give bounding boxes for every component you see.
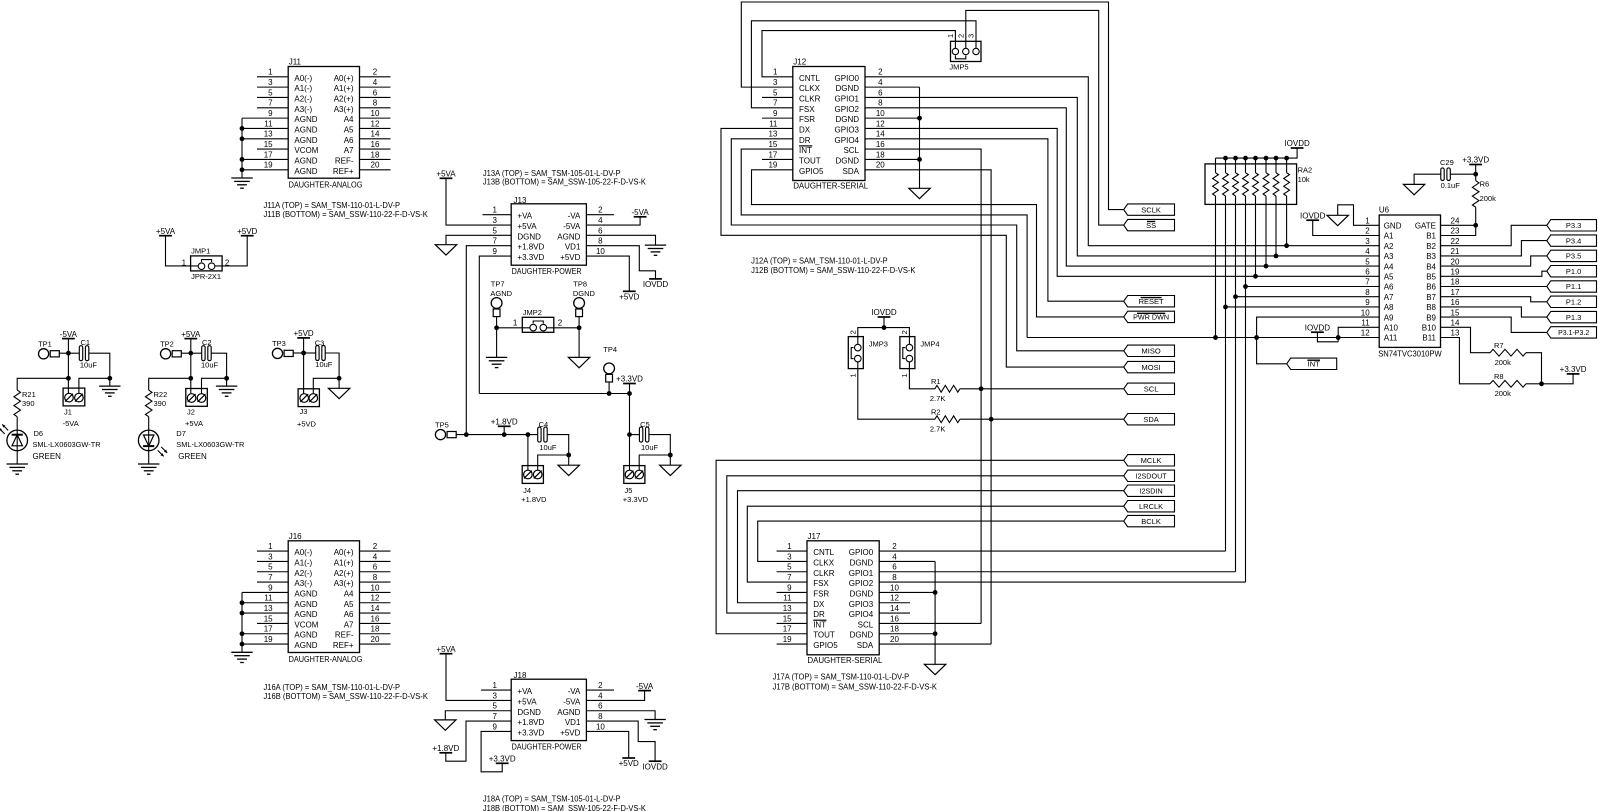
- wire U6 GATE to R6 node: [1441, 223, 1479, 228]
- wire U6 B1 to GATE node: [1441, 225, 1476, 235]
- wire net AGND bus left of J11: [240, 118, 245, 178]
- svg-text:J17B (BOTTOM) = SAM_SSW-110-22: J17B (BOTTOM) = SAM_SSW-110-22-F-D-VS-K: [773, 682, 938, 691]
- svg-text:2: 2: [878, 68, 883, 77]
- flag I2SDOUT: [1124, 470, 1175, 481]
- svg-text:GREEN: GREEN: [178, 452, 207, 461]
- svg-text:+5VD: +5VD: [560, 253, 580, 262]
- terminal J5 +3.3VD: [623, 466, 649, 504]
- svg-text:9: 9: [268, 109, 273, 118]
- svg-text:DR: DR: [813, 610, 825, 619]
- svg-text:J16B (BOTTOM) = SAM_SSW-110-22: J16B (BOTTOM) = SAM_SSW-110-22-F-D-VS-K: [264, 692, 429, 701]
- wire +5VA node to C2: [191, 352, 202, 354]
- svg-text:3: 3: [268, 552, 273, 561]
- svg-text:IOVDD: IOVDD: [643, 280, 669, 289]
- svg-text:CNTL: CNTL: [813, 548, 834, 557]
- wire net A11/INT line: [1027, 337, 1379, 339]
- wire J18 pin9 to +3.3VD: [481, 731, 511, 771]
- wire C5 node to plate: [630, 434, 640, 436]
- svg-text:15: 15: [264, 140, 273, 149]
- wire +5VD drop to node: [303, 338, 305, 353]
- svg-text:A1(+): A1(+): [334, 84, 354, 93]
- wire J13 pin4 to -5VA: [586, 217, 640, 225]
- svg-text:J5: J5: [625, 486, 633, 495]
- power +5VD below J13: [619, 291, 639, 301]
- wire ground node down: [669, 455, 671, 465]
- svg-text:R1: R1: [931, 377, 941, 386]
- wire J17 pin9 FSR stub: [777, 591, 807, 593]
- wire J13 pin5 DGND to ground: [446, 235, 511, 244]
- jumper JMP3: [848, 330, 888, 377]
- svg-text:15: 15: [783, 614, 792, 623]
- svg-text:TP1: TP1: [38, 340, 52, 349]
- svg-text:TP4: TP4: [603, 345, 617, 354]
- svg-text:5: 5: [1365, 257, 1370, 266]
- flag P3.4: [1547, 235, 1597, 246]
- flag SDA: [1124, 414, 1175, 425]
- svg-text:17: 17: [264, 150, 273, 159]
- svg-text:5: 5: [787, 563, 792, 572]
- terminal J1 -5VA: [63, 388, 85, 428]
- svg-text:10: 10: [596, 247, 605, 256]
- connector J11 DAUGHTER-ANALOG: [242, 58, 391, 190]
- svg-text:1: 1: [787, 542, 792, 551]
- terminal J3 +5VD: [297, 389, 319, 429]
- flag MCLK: [1124, 455, 1175, 466]
- wire D6 to ground: [16, 450, 18, 464]
- wire C29 right to node: [1450, 173, 1475, 175]
- wire J12 pin9 FSR stub: [762, 117, 793, 119]
- svg-text:A11: A11: [1384, 334, 1398, 343]
- svg-text:SDA: SDA: [857, 641, 874, 650]
- svg-text:+3.3VD: +3.3VD: [616, 375, 643, 384]
- svg-text:P1.0: P1.0: [1566, 267, 1581, 276]
- svg-text:I2SDIN: I2SDIN: [1140, 486, 1163, 495]
- power -5VA above TP1: [60, 330, 78, 339]
- svg-text:+3.3VD: +3.3VD: [517, 253, 544, 262]
- svg-text:6: 6: [373, 88, 378, 97]
- jumper JMP5 3-pin: [946, 34, 981, 72]
- power +5VA at JMP1: [156, 227, 176, 236]
- svg-text:1: 1: [492, 206, 497, 215]
- wire +3.3VD drop to C29 node: [1473, 165, 1478, 177]
- wire net GPIO1 J12 to U6 A3: [865, 97, 1379, 258]
- svg-text:GREEN: GREEN: [33, 452, 62, 461]
- svg-text:VCOM: VCOM: [294, 146, 318, 155]
- power +5VA left of J18: [436, 645, 456, 654]
- svg-text:24: 24: [1451, 217, 1460, 226]
- connector J18 DAUGHTER-POWER: [492, 671, 605, 751]
- svg-text:8: 8: [598, 237, 603, 246]
- svg-text:+5VA: +5VA: [156, 227, 176, 236]
- svg-text:4: 4: [878, 78, 883, 87]
- flag SCLK: [1124, 204, 1175, 215]
- svg-text:SN74TVC3010PW: SN74TVC3010PW: [1378, 349, 1442, 358]
- svg-text:RA2: RA2: [1298, 165, 1313, 174]
- svg-text:16: 16: [371, 140, 380, 149]
- wire +3.3VD drop and down to C5 node: [627, 384, 632, 438]
- wire net SCL vertical J12 to J17: [865, 149, 983, 623]
- svg-text:+5VD: +5VD: [619, 293, 639, 302]
- svg-text:+3.3VD: +3.3VD: [1560, 365, 1587, 374]
- wire INT flag drop: [1257, 338, 1287, 364]
- flag SCL: [1124, 383, 1175, 394]
- svg-text:A1: A1: [1384, 232, 1394, 241]
- svg-text:A10: A10: [1384, 324, 1399, 333]
- svg-text:18: 18: [890, 625, 899, 634]
- svg-text:1: 1: [848, 373, 857, 377]
- svg-text:5: 5: [492, 226, 497, 235]
- svg-text:18: 18: [371, 625, 380, 634]
- svg-text:12: 12: [371, 119, 380, 128]
- note J12A/J12B part numbers: [751, 256, 916, 275]
- svg-text:11: 11: [1361, 319, 1370, 328]
- wire net GPIO4 J12 to RESET flag: [865, 139, 1124, 301]
- svg-text:A0(-): A0(-): [294, 74, 312, 83]
- svg-text:DGND: DGND: [850, 589, 874, 598]
- svg-text:J16: J16: [289, 532, 302, 541]
- wire J13 pin6 AGND to ground: [586, 235, 655, 245]
- power +3.3VD at R7/R8: [1560, 365, 1587, 374]
- svg-text:9: 9: [773, 109, 778, 118]
- capacitor C5: [639, 420, 658, 452]
- svg-text:LRCLK: LRCLK: [1139, 502, 1163, 511]
- svg-text:P3.5: P3.5: [1566, 252, 1581, 261]
- svg-text:DGND: DGND: [517, 708, 541, 717]
- svg-text:P3.1-P3.2: P3.1-P3.2: [1558, 330, 1589, 337]
- wire J13 pin2 -VA stub: [586, 214, 614, 216]
- svg-text:9: 9: [492, 722, 497, 731]
- wire J12 pin17 TOUT stub: [762, 158, 793, 160]
- wire JMP4 pin1 to R1: [909, 369, 935, 389]
- svg-text:+3.3VD: +3.3VD: [623, 495, 649, 504]
- svg-text:FSR: FSR: [813, 589, 829, 598]
- wire TP8 down to node: [578, 317, 580, 328]
- svg-text:MCLK: MCLK: [1141, 456, 1162, 465]
- svg-text:B6: B6: [1426, 283, 1436, 292]
- svg-text:13: 13: [1451, 329, 1460, 338]
- wire C4 to ground corner: [547, 435, 571, 458]
- svg-text:1: 1: [946, 34, 955, 38]
- svg-text:GPIO5: GPIO5: [813, 641, 838, 650]
- svg-text:+1.8VD: +1.8VD: [517, 718, 544, 727]
- svg-text:J13: J13: [514, 196, 527, 205]
- svg-text:11: 11: [783, 594, 792, 603]
- wire TP1 to -5VA node: [59, 351, 71, 356]
- svg-text:REF+: REF+: [333, 641, 354, 650]
- svg-text:GPIO4: GPIO4: [849, 610, 874, 619]
- svg-text:-5VA: -5VA: [636, 682, 654, 691]
- power IOVDD above RA2: [1284, 139, 1310, 148]
- svg-text:B11: B11: [1422, 334, 1436, 343]
- svg-text:10: 10: [890, 583, 899, 592]
- wire net DGND J12: [865, 87, 922, 188]
- connector J12 DAUGHTER-SERIAL: [768, 58, 885, 191]
- svg-text:A7: A7: [344, 146, 354, 155]
- svg-text:DAUGHTER-ANALOG: DAUGHTER-ANALOG: [289, 655, 363, 664]
- svg-text:AGND: AGND: [294, 167, 317, 176]
- wire -5VA drop to node: [67, 339, 69, 354]
- wire net AGND bus left of J16: [240, 592, 245, 652]
- wire C2 to ground corner: [211, 353, 226, 378]
- svg-text:+1.8VD: +1.8VD: [491, 418, 518, 427]
- svg-text:A2(+): A2(+): [334, 569, 354, 578]
- svg-text:7: 7: [268, 573, 273, 582]
- svg-text:20: 20: [371, 161, 380, 170]
- resistor R6 200k: [1472, 174, 1496, 225]
- ground AGND earth right of J18: [644, 720, 665, 730]
- svg-text:+5VD: +5VD: [619, 759, 639, 768]
- svg-text:13: 13: [264, 604, 273, 613]
- wire RA2 lead3 to J17 GPIO1 / U6 A7: [1233, 204, 1238, 571]
- note J13A/J13B part numbers: [483, 169, 647, 186]
- wire +5VA node down and left: [149, 353, 194, 393]
- svg-text:7: 7: [1365, 278, 1370, 287]
- ground triangle DGND below J17: [924, 664, 945, 674]
- wire C1 to ground corner: [89, 353, 110, 378]
- svg-text:+5VA: +5VA: [517, 697, 537, 706]
- wire U6 A6 row: [1246, 286, 1380, 288]
- svg-text:12: 12: [371, 594, 380, 603]
- svg-text:R8: R8: [1494, 372, 1504, 381]
- svg-text:CLKX: CLKX: [799, 84, 821, 93]
- svg-text:MOSI: MOSI: [1142, 363, 1161, 372]
- flag MISO: [1124, 345, 1175, 356]
- svg-text:21: 21: [1451, 247, 1460, 256]
- svg-text:A2(-): A2(-): [294, 569, 312, 578]
- svg-text:B1: B1: [1426, 232, 1436, 241]
- svg-text:-VA: -VA: [568, 212, 581, 221]
- svg-text:10uF: 10uF: [315, 360, 333, 369]
- svg-text:3: 3: [967, 34, 976, 38]
- wire J4 pin1 drop: [527, 435, 529, 470]
- svg-text:A8: A8: [1384, 303, 1394, 312]
- power +3.3VD above R6: [1462, 156, 1489, 165]
- power +5VA above TP2: [181, 330, 201, 339]
- wire J3 pin2 to ground node: [313, 376, 341, 394]
- flag SS: [1124, 219, 1175, 230]
- svg-text:23: 23: [1451, 227, 1460, 236]
- svg-text:9: 9: [492, 247, 497, 256]
- flag P3.5: [1547, 250, 1597, 261]
- wire J13 pin7 +1.8VD down: [466, 246, 511, 435]
- svg-text:B4: B4: [1426, 262, 1436, 271]
- svg-text:2: 2: [373, 542, 378, 551]
- wire J18 pin10 to +5VD: [586, 731, 628, 758]
- ground triangle DGND below TP8: [568, 357, 589, 367]
- svg-text:1: 1: [492, 681, 497, 690]
- connector J13 DAUGHTER-POWER: [492, 196, 605, 276]
- svg-text:B8: B8: [1426, 303, 1436, 312]
- svg-text:REF-: REF-: [335, 631, 354, 640]
- svg-text:D6: D6: [34, 429, 44, 438]
- svg-text:TP7: TP7: [491, 280, 505, 289]
- svg-text:15: 15: [768, 140, 777, 149]
- testpoint TP4: [603, 345, 617, 382]
- power IOVDD at A11: [1305, 323, 1331, 332]
- svg-text:8: 8: [598, 712, 603, 721]
- svg-text:C29: C29: [1440, 158, 1454, 167]
- svg-text:AGND: AGND: [294, 641, 317, 650]
- svg-text:2: 2: [848, 330, 857, 334]
- wire RA2 lead8 to U6 A2: [1286, 204, 1288, 245]
- svg-text:4: 4: [892, 552, 897, 561]
- wire U6 A10 to A11 line: [1336, 327, 1379, 342]
- wire net GPIO0 J17 row: [879, 550, 1225, 552]
- svg-text:A2: A2: [1384, 242, 1394, 251]
- note J18A/J18B part numbers: [483, 794, 647, 811]
- note J11A/J11B part numbers: [264, 201, 429, 219]
- wire net JMP5 pin2 to SS flag: [966, 10, 1124, 225]
- power +5VD at JMP1: [237, 227, 257, 236]
- svg-text:6: 6: [373, 563, 378, 572]
- wire net SCL to flag: [960, 388, 1124, 390]
- svg-text:6: 6: [892, 563, 897, 572]
- ground earth below D6: [7, 464, 28, 474]
- testpoint TP7 AGND: [490, 280, 512, 317]
- ground triangle right of J4: [558, 465, 579, 475]
- svg-text:19: 19: [264, 635, 273, 644]
- svg-text:7: 7: [492, 712, 497, 721]
- svg-text:IOVDD: IOVDD: [1305, 323, 1331, 332]
- svg-text:10uF: 10uF: [80, 361, 98, 370]
- wire J13 pin10 to +5VD: [586, 256, 629, 291]
- wire U6 B6 to P1.1: [1441, 286, 1547, 288]
- wire IOVDD node split: [858, 317, 910, 337]
- testpoint TP2: [160, 340, 181, 359]
- svg-text:SML-LX0603GW-TR: SML-LX0603GW-TR: [33, 440, 102, 449]
- wire U6 A9 to A11 line: [1254, 317, 1379, 340]
- svg-text:8: 8: [373, 573, 378, 582]
- ground AGND earth below J11: [231, 178, 252, 188]
- svg-text:+VA: +VA: [517, 687, 532, 696]
- flag P3.3: [1547, 220, 1597, 231]
- svg-text:13: 13: [783, 604, 792, 613]
- capacitor C2: [201, 338, 219, 370]
- svg-text:A4: A4: [344, 589, 354, 598]
- svg-text:AGND: AGND: [294, 610, 317, 619]
- svg-text:AGND: AGND: [294, 156, 317, 165]
- testpoint TP5: [435, 420, 456, 439]
- ground earth below D7: [138, 464, 159, 474]
- svg-text:8: 8: [892, 573, 897, 582]
- svg-text:16: 16: [371, 614, 380, 623]
- svg-text:A7: A7: [1384, 293, 1394, 302]
- svg-text:A1(-): A1(-): [294, 84, 312, 93]
- wire IOVDD zigzag to A11: [1317, 332, 1338, 342]
- svg-text:14: 14: [371, 604, 380, 613]
- power +5VD below J18: [619, 758, 639, 768]
- svg-text:J13B (BOTTOM) = SAM_SSW-105-22: J13B (BOTTOM) = SAM_SSW-105-22-F-D-VS-K: [483, 177, 647, 186]
- svg-text:GPIO0: GPIO0: [835, 74, 860, 83]
- flag RESET: [1124, 296, 1175, 307]
- wire TP3 to +5VD node: [293, 351, 306, 356]
- wire U6 GND pin1 to ground: [1338, 205, 1380, 226]
- svg-text:FSX: FSX: [799, 105, 815, 114]
- power IOVDD below J13: [643, 279, 669, 289]
- svg-text:1: 1: [513, 319, 518, 328]
- wire TP2 to +5VA node: [181, 351, 193, 356]
- wire +5VA to J18 pin3: [446, 654, 511, 701]
- capacitor C3: [315, 338, 333, 369]
- svg-text:1: 1: [268, 542, 273, 551]
- wire J13 pin1 +VA stub: [483, 214, 512, 216]
- flag PWR DWN: [1124, 311, 1175, 322]
- svg-text:R21: R21: [22, 390, 36, 399]
- wire net +3.3VD rail: [479, 382, 632, 396]
- svg-text:4: 4: [1365, 247, 1370, 256]
- svg-text:A2(+): A2(+): [334, 94, 354, 103]
- svg-text:TP3: TP3: [272, 339, 286, 348]
- svg-text:7: 7: [773, 99, 778, 108]
- svg-text:+5VA: +5VA: [436, 170, 456, 179]
- svg-text:BCLK: BCLK: [1141, 517, 1161, 526]
- note J17A/J17B part numbers: [773, 673, 938, 692]
- wire J2 pin2 to ground node: [202, 376, 230, 394]
- resistor R1 2.7K: [930, 377, 960, 403]
- wire C29 left to ground: [1414, 174, 1441, 184]
- svg-text:13: 13: [264, 130, 273, 139]
- svg-text:A3(-): A3(-): [294, 105, 312, 114]
- wire RA2 lead6 to U6 A4: [1265, 204, 1267, 266]
- wire U6 B3 to P3.4: [1441, 241, 1547, 256]
- svg-text:3: 3: [268, 78, 273, 87]
- svg-text:J12B (BOTTOM) = SAM_SSW-110-22: J12B (BOTTOM) = SAM_SSW-110-22-F-D-VS-K: [751, 266, 916, 275]
- svg-text:19: 19: [768, 161, 777, 170]
- svg-text:20: 20: [1451, 257, 1460, 266]
- svg-text:390: 390: [22, 399, 35, 408]
- wire U6 B9 to P3.1-P3.2: [1441, 317, 1547, 332]
- svg-text:IOVDD: IOVDD: [642, 762, 668, 771]
- svg-text:8: 8: [373, 99, 378, 108]
- wire U6 A1 to IOVDD: [1313, 220, 1380, 235]
- svg-text:16: 16: [1451, 298, 1460, 307]
- jumper JMP2: [513, 308, 563, 332]
- wire U6 B5 to P1.0: [1441, 271, 1547, 276]
- svg-text:A5: A5: [344, 125, 354, 134]
- svg-text:2.7K: 2.7K: [930, 425, 945, 434]
- svg-text:13: 13: [768, 130, 777, 139]
- svg-text:3: 3: [1365, 237, 1370, 246]
- wire +5VA to JMP1 pin1: [166, 236, 199, 266]
- power -5VA right of J18: [636, 682, 654, 691]
- svg-text:14: 14: [876, 130, 885, 139]
- wire J18 pin6 AGND to ground: [586, 711, 655, 720]
- svg-text:+3.3VD: +3.3VD: [517, 728, 544, 737]
- svg-text:TP8: TP8: [573, 280, 587, 289]
- svg-text:2: 2: [598, 681, 603, 690]
- wire +1.8VD power drop: [503, 426, 505, 434]
- wire J4 pin2 to ground node: [538, 455, 569, 470]
- power +5VA left of J13: [436, 170, 456, 179]
- wire J5 pin2 to ground node: [639, 455, 670, 470]
- svg-text:CLKR: CLKR: [799, 94, 821, 103]
- wire TP7 down to node: [494, 317, 499, 331]
- svg-text:VD1: VD1: [565, 243, 581, 252]
- svg-text:20: 20: [371, 635, 380, 644]
- flag INT: [1287, 358, 1337, 369]
- svg-text:4: 4: [373, 78, 378, 87]
- svg-text:AGND: AGND: [490, 289, 512, 298]
- svg-text:11: 11: [769, 119, 778, 128]
- svg-text:JMP1: JMP1: [191, 247, 210, 256]
- svg-text:INT: INT: [799, 146, 812, 155]
- svg-text:DGND: DGND: [835, 115, 859, 124]
- svg-text:DR: DR: [799, 136, 811, 145]
- wire net GPIO2 J17 row: [879, 581, 1245, 583]
- svg-text:AGND: AGND: [557, 232, 580, 241]
- svg-text:P1.3: P1.3: [1566, 313, 1581, 322]
- svg-text:2.7K: 2.7K: [930, 394, 945, 403]
